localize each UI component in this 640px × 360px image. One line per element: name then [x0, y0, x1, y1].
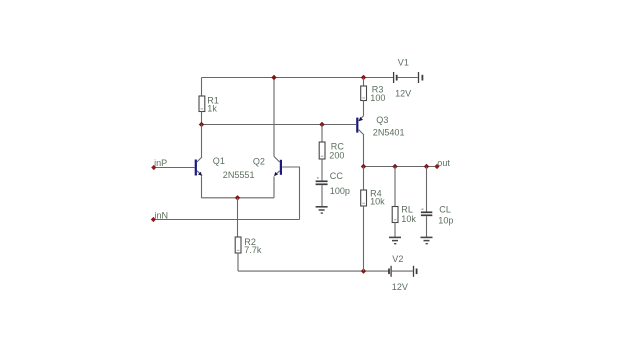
label RC [331, 141, 345, 151]
wire R2 bottom to bottom rail [237, 253, 239, 271]
wire CL bottom to ground [426, 216, 428, 237]
wire Q3 collector down x=363.5 to out rail [363, 135, 365, 167]
label inN [155, 211, 169, 221]
wire Q2 collector up x=274 to top rail [273, 78, 275, 157]
wire x=201.5 down to Q1 collector [201, 125, 203, 158]
svg-text:12V: 12V [392, 282, 408, 292]
label R4 value 10k [370, 197, 385, 207]
label R2 value 7.7k [244, 245, 262, 255]
label CC value 100p [330, 186, 350, 196]
wire RC bottom to CC [321, 159, 323, 181]
resistor RL [392, 207, 398, 223]
battery V1 [394, 72, 423, 83]
wire RL top x=395 [394, 167, 396, 207]
wire R4 top x=363.5 [363, 167, 365, 191]
label out [437, 158, 450, 168]
transistor Q1 2N5551 [195, 157, 202, 176]
capacitor CL [421, 209, 432, 215]
wire top rail y=77.5 from R1 top-left corner to V1 [202, 77, 394, 79]
wire R3 top x=363.5 [363, 78, 365, 87]
junction top rail R3 (363.5,77.5) [361, 75, 366, 80]
wire Q2 emitter down x=274 [273, 177, 275, 198]
svg-text:100: 100 [370, 93, 385, 103]
wire base rail y=124.5 from R1 junction to Q3 base [202, 124, 357, 126]
junction bottom rail (363.5,270.8) [361, 268, 366, 273]
label RL [401, 205, 413, 215]
svg-text:1k: 1k [207, 104, 217, 114]
wire Q2 base y=167 to corner x=300 [282, 166, 300, 168]
pin out [434, 164, 439, 169]
wire R1 bottom to junction [201, 112, 203, 125]
wire RC junction down x=322 [321, 125, 323, 143]
svg-text:200: 200 [329, 150, 344, 160]
label CL [439, 205, 451, 215]
junction base rail RC (322,124.5) [319, 122, 324, 127]
junction at R1 bottom (201.5,124.5) [199, 122, 204, 127]
label V1 value 12V [395, 89, 411, 99]
label V2 value 12V [392, 282, 408, 292]
wire inN rail y=219.5 [154, 219, 300, 221]
label RL value 10k [401, 214, 416, 224]
capacitor CC [316, 178, 328, 184]
wire inP pin to Q1 base y=167 [154, 167, 195, 169]
wire CC bottom to ground [321, 185, 323, 207]
resistor R1 [199, 96, 205, 112]
svg-text:Q3: Q3 [376, 115, 388, 125]
wire junction down to R2 x=237.5 [237, 198, 239, 237]
wire out rail y=166.5 [364, 166, 438, 168]
svg-text:CC: CC [330, 171, 344, 181]
label Q1 [213, 156, 225, 166]
label Q2 [253, 156, 265, 166]
svg-text:12V: 12V [395, 89, 411, 99]
label RC value 200 [329, 150, 344, 160]
svg-text:CL: CL [439, 205, 451, 215]
label CC [330, 171, 344, 181]
label Q1 Q2 type 2N5551 [223, 170, 255, 180]
junction out rail (363.5,166.5) [361, 164, 366, 169]
svg-text:10p: 10p [438, 215, 453, 225]
wire x=300 down to inN rail [299, 167, 301, 220]
junction out rail CL (426.5,166.5) [424, 164, 429, 169]
svg-text:2N5551: 2N5551 [223, 170, 255, 180]
wire R4 bottom to bottom rail [363, 206, 365, 271]
resistor R4 [361, 190, 367, 206]
junction out rail RL (395,166.5) [392, 164, 397, 169]
ground below CL [421, 237, 433, 243]
junction top rail (274,77.5) [271, 75, 276, 80]
label Q3 [376, 115, 388, 125]
pin inP [151, 165, 156, 170]
svg-text:Q2: Q2 [253, 156, 265, 166]
svg-text:7.7k: 7.7k [244, 245, 262, 255]
svg-text:100p: 100p [330, 186, 350, 196]
resistor R3 [361, 86, 367, 101]
svg-text:V2: V2 [392, 254, 403, 264]
label V1 [398, 58, 409, 68]
label R1 value 1k [207, 104, 217, 114]
wire Q1 emitter down x=201.5 [201, 176, 203, 198]
wire CL top x=426.5 [426, 167, 428, 212]
svg-text:out: out [437, 158, 450, 168]
svg-text:Q1: Q1 [213, 156, 225, 166]
transistor Q2 2N5551 [274, 157, 282, 177]
pin inN [151, 217, 156, 222]
svg-text:V1: V1 [398, 58, 409, 68]
svg-text:10k: 10k [401, 214, 416, 224]
transistor Q3 2N5401 [356, 116, 364, 135]
label R4 [370, 189, 382, 199]
label Q3 type 2N5401 [373, 128, 405, 138]
label inP [154, 158, 167, 168]
label R3 value 100 [370, 93, 385, 103]
label V2 [392, 254, 403, 264]
battery V2 [389, 266, 417, 277]
wire left vertical x=201.5 from top rail to R1 [201, 78, 203, 97]
resistor RC [319, 142, 325, 159]
svg-text:10k: 10k [370, 197, 385, 207]
label R3 [372, 85, 384, 95]
svg-text:inP: inP [154, 158, 167, 168]
resistor R2 [235, 237, 241, 253]
svg-text:inN: inN [155, 211, 169, 221]
svg-text:RL: RL [401, 205, 413, 215]
wire R3 bottom to Q3 emitter [363, 101, 365, 116]
svg-text:2N5401: 2N5401 [373, 128, 405, 138]
ground below CC [316, 207, 328, 213]
junction emitter rail (237.5,198) [235, 195, 240, 200]
wire emitter rail y=198 Q1 to Q2 [202, 197, 275, 199]
ground below RL [389, 237, 401, 243]
label CL value 10p [438, 215, 453, 225]
wire bottom rail y=270.8 to V2 [238, 270, 388, 272]
label R2 [244, 237, 256, 247]
wire RL bottom to ground [394, 223, 396, 238]
label R1 [207, 96, 219, 106]
